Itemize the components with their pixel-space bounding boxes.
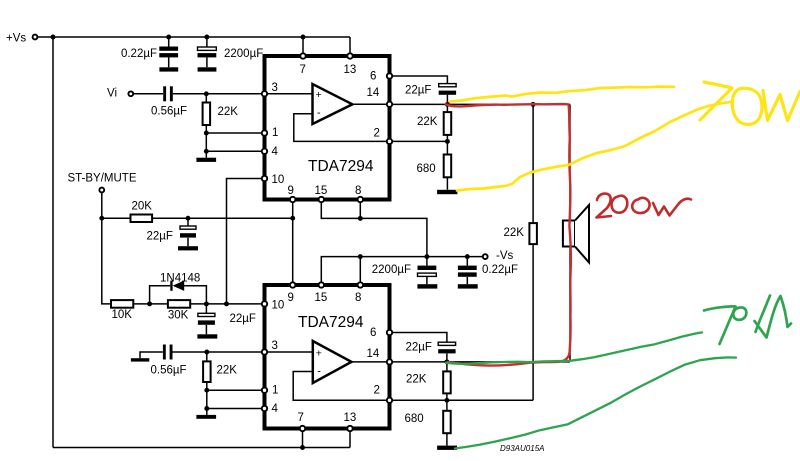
- svg-text:-: -: [317, 107, 321, 119]
- svg-text:-Vs: -Vs: [496, 250, 514, 262]
- wire pin2 row 2 to bridge: [392, 399, 533, 401]
- ground input network 2: [196, 415, 216, 419]
- ground R7: [437, 190, 457, 194]
- junction diode anode node: [147, 301, 152, 306]
- ground C7: [458, 284, 478, 288]
- wire U1 feedback to pin2: [294, 114, 390, 142]
- svg-text:9: 9: [288, 292, 294, 304]
- wire U1 output to pin14: [352, 103, 389, 105]
- U1 pin 4: [262, 146, 279, 158]
- U2 pin 15: [315, 282, 328, 304]
- ground input network 1: [196, 158, 216, 162]
- U2 pin 14: [367, 348, 393, 365]
- svg-text:10K: 10K: [112, 309, 133, 321]
- junction R6 R7 node: [445, 139, 450, 144]
- junction C7 rail: [465, 254, 470, 259]
- resistor R6 22K feedback 1: [417, 104, 451, 141]
- svg-text:2: 2: [374, 385, 380, 397]
- capacitor C5 22uF mute: [198, 304, 256, 334]
- junction input node 2: [204, 350, 209, 355]
- svg-text:13: 13: [344, 412, 357, 424]
- svg-text:20K: 20K: [132, 201, 153, 213]
- wire R5 to pin1 IC2: [207, 389, 265, 391]
- wire ST-BY to 20K: [102, 217, 131, 219]
- svg-text:1: 1: [272, 385, 278, 397]
- wire pin13 drop from rail: [349, 37, 351, 56]
- resistor R9 22K feedback 2: [406, 362, 451, 400]
- wire 30K to pin10 IC2: [190, 303, 264, 305]
- svg-text:3: 3: [272, 340, 278, 352]
- ground C4: [178, 246, 198, 250]
- svg-text:6: 6: [370, 327, 376, 339]
- svg-text:10: 10: [272, 300, 285, 312]
- node Vi input terminal: [107, 88, 133, 100]
- annotation green pointer upper: [446, 332, 702, 363]
- wire C8 to pin3 IC2: [173, 351, 265, 353]
- resistor R7 680 feedback 1: [417, 141, 452, 189]
- wire -Vs rail: [321, 257, 482, 285]
- U2 pin 8: [355, 282, 363, 304]
- ground R10: [437, 446, 457, 450]
- svg-text:+: +: [316, 89, 322, 101]
- svg-text:14: 14: [367, 87, 380, 99]
- capacitor C7 0.22uF -Vs: [458, 257, 518, 285]
- junction output node 2: [444, 359, 449, 364]
- resistor R5 22K input 2: [203, 352, 237, 409]
- wire pin13 IC2 riser: [349, 429, 351, 448]
- U1 pin 6: [370, 71, 392, 83]
- svg-text:0.56µF: 0.56µF: [151, 365, 187, 377]
- wire pin4 node to ground: [205, 151, 207, 157]
- IC U2 TDA7294 lower: [265, 285, 390, 429]
- wire output row 1: [392, 103, 570, 105]
- svg-text:8: 8: [355, 292, 361, 304]
- junction R9 R10 node: [444, 398, 449, 403]
- wire U2 noninverting input: [265, 351, 313, 353]
- U2 pin 9: [288, 282, 296, 304]
- annotation green pointer lower: [455, 357, 736, 448]
- svg-text:15: 15: [315, 292, 328, 304]
- node ST-BY/MUTE terminal: [68, 173, 137, 193]
- svg-text:Vi: Vi: [107, 88, 117, 100]
- wire output row 2: [392, 361, 570, 363]
- U2 pin 3: [262, 340, 278, 355]
- wire 10K to 30K: [133, 303, 168, 305]
- wire speaker vertical lower: [569, 247, 571, 362]
- svg-text:22K: 22K: [217, 365, 238, 377]
- resistor R3 10K mute: [111, 300, 133, 321]
- wire pin15 pin8 IC1 to -Vs: [321, 200, 427, 257]
- wire pin7 drop from rail: [302, 37, 304, 56]
- U2 pin 13: [344, 412, 357, 431]
- svg-text:680: 680: [405, 413, 424, 425]
- svg-text:7: 7: [300, 64, 306, 76]
- U1 pin 2: [374, 128, 393, 145]
- wire +Vs rail top: [38, 36, 350, 38]
- svg-text:1: 1: [272, 127, 278, 139]
- svg-text:4: 4: [272, 403, 279, 415]
- svg-text:D93AU015A: D93AU015A: [500, 444, 544, 453]
- annotation yellow pointer upper: [450, 87, 674, 102]
- U2 pin 1: [262, 385, 279, 397]
- wire pin7 IC2 riser: [302, 429, 304, 448]
- wire pin9 IC1 to pin9 IC2: [292, 200, 294, 286]
- capacitor C2 2200uF supply electrolytic: [198, 37, 264, 67]
- wire bottom supply rail: [53, 447, 350, 449]
- junction pin4 node 2: [204, 406, 209, 411]
- ground C5: [197, 334, 217, 338]
- svg-text:10: 10: [272, 174, 285, 186]
- svg-text:22µF: 22µF: [405, 85, 431, 97]
- U1 pin 9: [288, 185, 296, 202]
- resistor R1 22K input 1: [203, 94, 239, 152]
- U2 pin 10: [262, 300, 284, 312]
- junction pin8 IC1 net: [358, 216, 363, 221]
- junction C1 rail: [166, 35, 171, 40]
- U1 pin 1: [262, 127, 279, 139]
- junction bridge tap: [531, 102, 536, 107]
- U1 pin 14: [367, 87, 393, 107]
- wire 20K to pin9 net: [152, 217, 293, 219]
- junction C2 rail: [204, 35, 209, 40]
- junction pin7 bottom rail: [300, 445, 305, 450]
- wire left supply vertical: [52, 37, 54, 448]
- junction C6 rail: [424, 254, 429, 259]
- junction input node 1: [204, 91, 209, 96]
- svg-text:22µF: 22µF: [147, 230, 173, 242]
- svg-text:+: +: [316, 348, 322, 360]
- svg-text:7: 7: [298, 412, 304, 424]
- annotation red text 200w: [597, 194, 692, 218]
- resistor R2 20K st-by: [131, 201, 153, 223]
- svg-text:0.22µF: 0.22µF: [121, 48, 157, 60]
- svg-text:TDA7294: TDA7294: [298, 314, 364, 331]
- speaker LS1: [563, 205, 589, 263]
- svg-text:4: 4: [272, 146, 279, 158]
- U1 pin 13: [344, 53, 357, 76]
- svg-text:ST-BY/MUTE: ST-BY/MUTE: [68, 173, 137, 185]
- svg-text:9: 9: [288, 185, 294, 197]
- svg-text:680: 680: [417, 163, 436, 175]
- annotation red bridge trace: [446, 104, 571, 365]
- junction pin8 IC2 rail: [358, 254, 363, 259]
- wire U2 feedback to pin2: [293, 372, 389, 401]
- U2 pin 2: [374, 385, 393, 403]
- svg-text:15: 15: [315, 185, 328, 197]
- resistor R4 30K mute: [168, 300, 190, 321]
- junction +Vs rail: [51, 35, 56, 40]
- svg-text:2: 2: [374, 128, 380, 140]
- svg-text:22K: 22K: [218, 106, 239, 118]
- junction ST-BY node: [99, 216, 104, 221]
- ground input stub 2: [131, 358, 149, 361]
- capacitor C6 2200uF -Vs electrolytic: [372, 257, 437, 285]
- svg-text:22K: 22K: [417, 116, 438, 128]
- junction 22uF stby tap: [186, 216, 191, 221]
- IC U1 TDA7294 upper: [265, 56, 390, 200]
- capacitor C3 0.56uF input: [151, 86, 187, 117]
- U1 pin 15: [315, 185, 328, 202]
- svg-text:8: 8: [355, 185, 361, 197]
- capacitor C9 22uF bootstrap 1: [405, 84, 456, 105]
- junction output node 1: [445, 102, 450, 107]
- wire pin6 IC2 to bootstrap cap: [392, 333, 447, 343]
- node -Vs terminal: [483, 250, 514, 262]
- svg-text:14: 14: [367, 348, 380, 360]
- svg-text:6: 6: [370, 71, 376, 83]
- svg-text:+Vs: +Vs: [6, 33, 26, 45]
- junction 30K cap node: [204, 301, 209, 306]
- wire U1 noninverting input: [265, 93, 313, 95]
- U2 pin 6: [370, 327, 392, 339]
- annotation green text 70K: [704, 296, 791, 345]
- wire Vi to C3: [134, 93, 163, 95]
- svg-text:22K: 22K: [406, 374, 427, 386]
- wire R1 to pin1 IC1: [206, 132, 264, 134]
- op-amp U2 triangle: [313, 341, 352, 383]
- wire diode bypass loop: [150, 286, 207, 304]
- wire node to pin4 IC1: [206, 150, 264, 152]
- svg-text:22K: 22K: [504, 227, 525, 239]
- U2 pin 4: [262, 403, 279, 415]
- svg-text:0.56µF: 0.56µF: [151, 106, 187, 118]
- capacitor C10 22uF bootstrap 2: [406, 342, 456, 362]
- wire node to pin4 IC2: [207, 408, 265, 410]
- svg-text:30K: 30K: [168, 309, 189, 321]
- annotation yellow pointer lower: [457, 102, 733, 191]
- wire pin6 IC1 to bootstrap cap: [392, 76, 447, 84]
- U1 pin 3: [262, 82, 278, 97]
- U1 pin 8: [355, 185, 363, 202]
- junction pin4 node 1: [204, 149, 209, 154]
- capacitor C1 0.22uF supply bypass: [121, 37, 178, 67]
- wire pin2 row 1: [392, 140, 447, 142]
- resistor R8 22K bridge: [504, 223, 537, 244]
- wire bridge 22K vertical: [532, 104, 534, 400]
- annotation yellow text 70W: [700, 82, 800, 125]
- svg-text:-: -: [317, 366, 321, 378]
- wire ST-BY drop: [102, 193, 111, 304]
- ground C2: [198, 67, 217, 71]
- resistor R10 680 feedback 2: [405, 400, 451, 445]
- junction mute vertical node: [224, 301, 229, 306]
- svg-text:3: 3: [272, 82, 278, 94]
- diode D1 1N4148: [160, 273, 200, 291]
- capacitor C8 0.56uF input 2: [151, 345, 187, 377]
- junction st-by net crossing: [290, 216, 295, 221]
- svg-text:0.22µF: 0.22µF: [482, 264, 518, 276]
- U1 pin 10: [262, 174, 284, 186]
- capacitor C4 22uF st-by: [147, 218, 197, 246]
- ground C1: [159, 67, 178, 71]
- op-amp U1 triangle: [313, 84, 353, 124]
- wire U2 output to pin14: [352, 361, 390, 363]
- wire pin4 node 2 to ground: [206, 409, 208, 415]
- wire ground stub to C8: [140, 352, 163, 358]
- ground C6: [417, 284, 437, 288]
- junction pin7 rail: [301, 35, 306, 40]
- svg-text:TDA7294: TDA7294: [308, 158, 374, 175]
- svg-text:22µF: 22µF: [406, 342, 432, 354]
- svg-text:2200µF: 2200µF: [224, 48, 263, 60]
- wire pin10 IC1 to mute net: [227, 179, 265, 304]
- wire C3 to pin3 IC1: [173, 93, 265, 95]
- node +Vs terminal: [6, 33, 37, 45]
- svg-text:13: 13: [344, 64, 357, 76]
- U2 pin 7: [298, 412, 306, 431]
- wire speaker vertical upper: [569, 104, 571, 220]
- junction pin1 node 1: [204, 131, 209, 136]
- svg-text:22µF: 22µF: [230, 313, 256, 325]
- svg-text:2200µF: 2200µF: [372, 264, 411, 276]
- junction pin1 node 2: [204, 388, 209, 393]
- U1 pin 7: [300, 53, 306, 76]
